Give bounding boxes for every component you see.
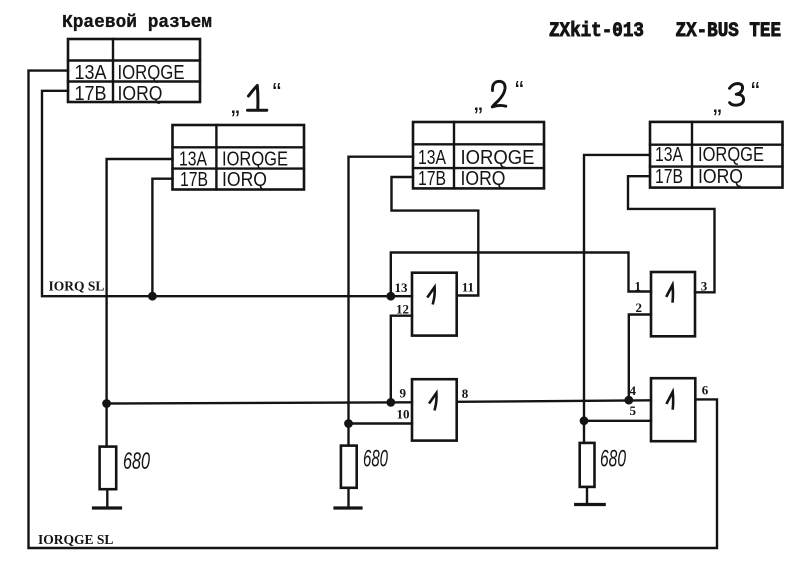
ground GND1 bbox=[94, 506, 121, 509]
svg-text:“: “ bbox=[515, 75, 524, 105]
ground GND3 bbox=[576, 503, 605, 506]
slot2 net IORQGE label bbox=[461, 147, 535, 169]
svg-text:IORQ: IORQ bbox=[461, 168, 506, 190]
svg-text:“: “ bbox=[751, 76, 760, 106]
junction: pin12 tap on IORQGE rail bbox=[386, 398, 395, 407]
wire: IORQGE rail to gate D1.3 pin 9 bbox=[107, 402, 412, 403]
svg-text:8: 8 bbox=[462, 386, 469, 401]
wire: X1 pin 13A left and down to IORQGE SL bottom rail, right and up to gate D1.4 pin 6 bbox=[29, 71, 718, 548]
wire: gate D1.3 pin 8 output right to gate D2.3 pin 4 bbox=[457, 400, 651, 402]
wire: IORQ SL jumper up over to gate D2.1 pin 1 bbox=[391, 253, 651, 297]
slot3 net IORQGE label bbox=[698, 144, 764, 166]
junction: IORQ SL / slot1 17B bbox=[148, 292, 157, 301]
slot2 net IORQ label bbox=[461, 168, 506, 190]
connector X1 (edge connector table) bbox=[68, 39, 200, 102]
svg-text:12: 12 bbox=[396, 302, 409, 317]
X1 net IORQGE label bbox=[118, 62, 185, 84]
X1 pin 13A label bbox=[75, 62, 108, 84]
svg-text:IORQ: IORQ bbox=[698, 166, 743, 188]
resistor R3 680 bbox=[580, 443, 595, 504]
junction: slot3 13A / pin 5 / R3 bbox=[580, 416, 589, 425]
svg-text:17B: 17B bbox=[655, 166, 683, 188]
pin label 5 bbox=[630, 403, 637, 418]
svg-text:2: 2 bbox=[636, 300, 643, 315]
wire: slot1 13A tap left and down to IORQGE rail / resistor R1 bbox=[107, 159, 173, 447]
wire: slot2 13A tap left and down to resistor R2 bbox=[349, 157, 414, 446]
svg-text:10: 10 bbox=[397, 407, 410, 422]
pin label 11 bbox=[462, 280, 474, 295]
junction: IORQ SL at pin 13 branch bbox=[386, 292, 395, 301]
connector slot 3 table bbox=[650, 122, 783, 188]
svg-text:IORQ: IORQ bbox=[118, 83, 163, 105]
net label IORQ SL bbox=[49, 279, 105, 294]
wire: gate D1.2 pin 12 tap down to IORQGE rail bbox=[391, 316, 412, 403]
svg-text:ZXkit-013 ZX-BUS TEE: ZXkit-013 ZX-BUS TEE bbox=[549, 20, 781, 43]
slot label "1" bbox=[231, 89, 240, 119]
slot3 pin 13A label bbox=[655, 144, 684, 166]
svg-text:13A: 13A bbox=[655, 144, 684, 166]
svg-text:IORQGE: IORQGE bbox=[118, 62, 185, 84]
junction: IORQGE rail start / R1 bbox=[102, 399, 111, 408]
wire: slot1 17B tap down to IORQ SL rail bbox=[152, 179, 172, 297]
pin label 8 bbox=[462, 386, 469, 401]
svg-text:IORQGE: IORQGE bbox=[222, 149, 288, 171]
svg-text:11: 11 bbox=[462, 280, 474, 295]
svg-text:5: 5 bbox=[630, 403, 637, 418]
slot1 net IORQ label bbox=[222, 169, 267, 191]
title: Краевой разъем bbox=[62, 13, 212, 33]
wire: gate D2.1 pin 3 output up over to slot3 17B bbox=[628, 176, 715, 292]
svg-text:4: 4 bbox=[630, 383, 637, 398]
svg-text:IORQGE: IORQGE bbox=[461, 147, 535, 169]
svg-text:„: „ bbox=[713, 88, 722, 118]
connector slot 1 table bbox=[173, 125, 305, 190]
pin label 1 bbox=[635, 279, 642, 294]
pin label 12 bbox=[396, 302, 409, 317]
X1 pin 17B label bbox=[75, 83, 107, 105]
svg-text:13A: 13A bbox=[75, 62, 108, 84]
slot3 net IORQ label bbox=[698, 166, 743, 188]
connector slot 2 table bbox=[413, 122, 544, 188]
svg-text:680: 680 bbox=[600, 446, 626, 473]
slot3 pin 17B label bbox=[655, 166, 683, 188]
R1 value 680 bbox=[123, 448, 150, 475]
wire: gate D2.3 pin 5 bbox=[584, 420, 651, 422]
pin label 6 bbox=[702, 383, 709, 398]
slot1 pin 17B label bbox=[180, 169, 208, 191]
svg-text:IORQ SL: IORQ SL bbox=[49, 279, 105, 294]
slot label "3" bbox=[713, 88, 722, 118]
slot2 pin 13A label bbox=[418, 147, 447, 169]
pin label 2 bbox=[636, 300, 643, 315]
wire: gate D1.2 pin 11 output up over to slot2 17B bbox=[392, 177, 479, 296]
R3 value 680 bbox=[600, 446, 626, 473]
net label IORQGE SL bbox=[38, 532, 113, 547]
R2 value 680 bbox=[363, 446, 388, 473]
svg-text:9: 9 bbox=[400, 386, 407, 401]
wire: gate D2.1 pin 2 tap down to pin 8 net bbox=[629, 315, 651, 401]
svg-text:13: 13 bbox=[395, 280, 409, 295]
pin label 3 bbox=[701, 279, 708, 294]
slot2 pin 17B label bbox=[418, 168, 446, 190]
svg-text:IORQGE: IORQGE bbox=[698, 144, 764, 166]
title: ZXkit-013 ZX-BUS TEE bbox=[549, 20, 781, 43]
svg-text:680: 680 bbox=[363, 446, 388, 473]
svg-text:13A: 13A bbox=[179, 149, 208, 171]
svg-text:17B: 17B bbox=[75, 83, 107, 105]
gate D1.2 (element 1, pins 13,12 -> 11) bbox=[412, 273, 457, 336]
junction: pin 8 net / pin 2 tap bbox=[624, 396, 633, 405]
svg-text:13A: 13A bbox=[418, 147, 447, 169]
pin label 13 bbox=[395, 280, 409, 295]
ground GND2 bbox=[335, 506, 361, 509]
svg-text:680: 680 bbox=[123, 448, 150, 475]
svg-text:6: 6 bbox=[702, 383, 709, 398]
svg-text:3: 3 bbox=[701, 279, 708, 294]
svg-text:17B: 17B bbox=[418, 168, 446, 190]
svg-text:“: “ bbox=[273, 77, 282, 107]
slot1 pin 13A label bbox=[179, 149, 208, 171]
gate D1.3 (element 1, pins 9,10 -> 8) bbox=[412, 379, 457, 440]
svg-text:IORQ: IORQ bbox=[222, 169, 267, 191]
svg-text:IORQGE SL: IORQGE SL bbox=[38, 532, 113, 547]
wire: gate D1.3 pin 10 bbox=[349, 422, 413, 424]
slot label "2" bbox=[474, 86, 483, 116]
resistor R1 680 bbox=[100, 447, 117, 508]
junction: slot2 13A / pin 10 / R2 bbox=[344, 419, 353, 428]
slot1 net IORQGE label bbox=[222, 149, 288, 171]
svg-text:1: 1 bbox=[635, 279, 642, 294]
pin label 9 bbox=[400, 386, 407, 401]
svg-text:„: „ bbox=[231, 89, 240, 119]
gate D2.1 (element 1, pins 1,2 -> 3) bbox=[651, 272, 695, 336]
wire: X1 pin 17B left and down to IORQ SL rail, right to gate D1.2 pin 13 bbox=[42, 91, 412, 296]
svg-text:17B: 17B bbox=[180, 169, 208, 191]
wire: slot3 13A tap left and down to resistor R3 bbox=[584, 155, 650, 443]
pin label 10 bbox=[397, 407, 410, 422]
pin label 4 bbox=[630, 383, 637, 398]
svg-text:Краевой разъем: Краевой разъем bbox=[62, 13, 212, 33]
resistor R2 680 bbox=[341, 446, 357, 508]
X1 net IORQ label bbox=[118, 83, 163, 105]
gate D2.3 (element 1, pins 4,5 -> 6) bbox=[651, 378, 695, 441]
svg-text:„: „ bbox=[474, 86, 483, 116]
